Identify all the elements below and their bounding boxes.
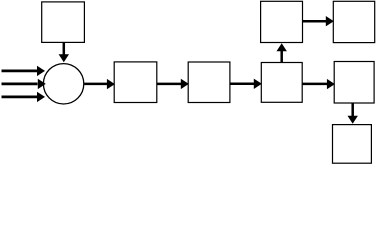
block B1 (top-left square): [42, 2, 85, 43]
input arrow 3 (bottom left input): [2, 92, 46, 102]
arrow B4 to B7: [302, 79, 335, 89]
arrow circle to B2: [84, 79, 115, 89]
block B6 (top-right): [333, 1, 374, 42]
block B3: [188, 62, 230, 103]
arrow B7 to B8 (vertical down): [348, 103, 358, 124]
arrow B2 to B3: [157, 79, 189, 89]
block B8 (bottom-right): [333, 125, 372, 164]
input arrow 1 (top left input): [2, 66, 46, 76]
arrow B4 to B5 (vertical up): [277, 43, 287, 62]
block B2: [114, 62, 157, 103]
arrow B5 to B6: [302, 16, 334, 26]
block B7 (right, middle row): [334, 62, 374, 104]
block B4: [261, 63, 302, 103]
summing junction circle: [43, 64, 83, 104]
arrow B1 to circle (vertical down): [59, 42, 69, 62]
block B5 (top, above B4): [261, 1, 303, 42]
arrow B3 to B4: [230, 79, 262, 89]
input arrow 2 (middle left input): [2, 79, 46, 89]
